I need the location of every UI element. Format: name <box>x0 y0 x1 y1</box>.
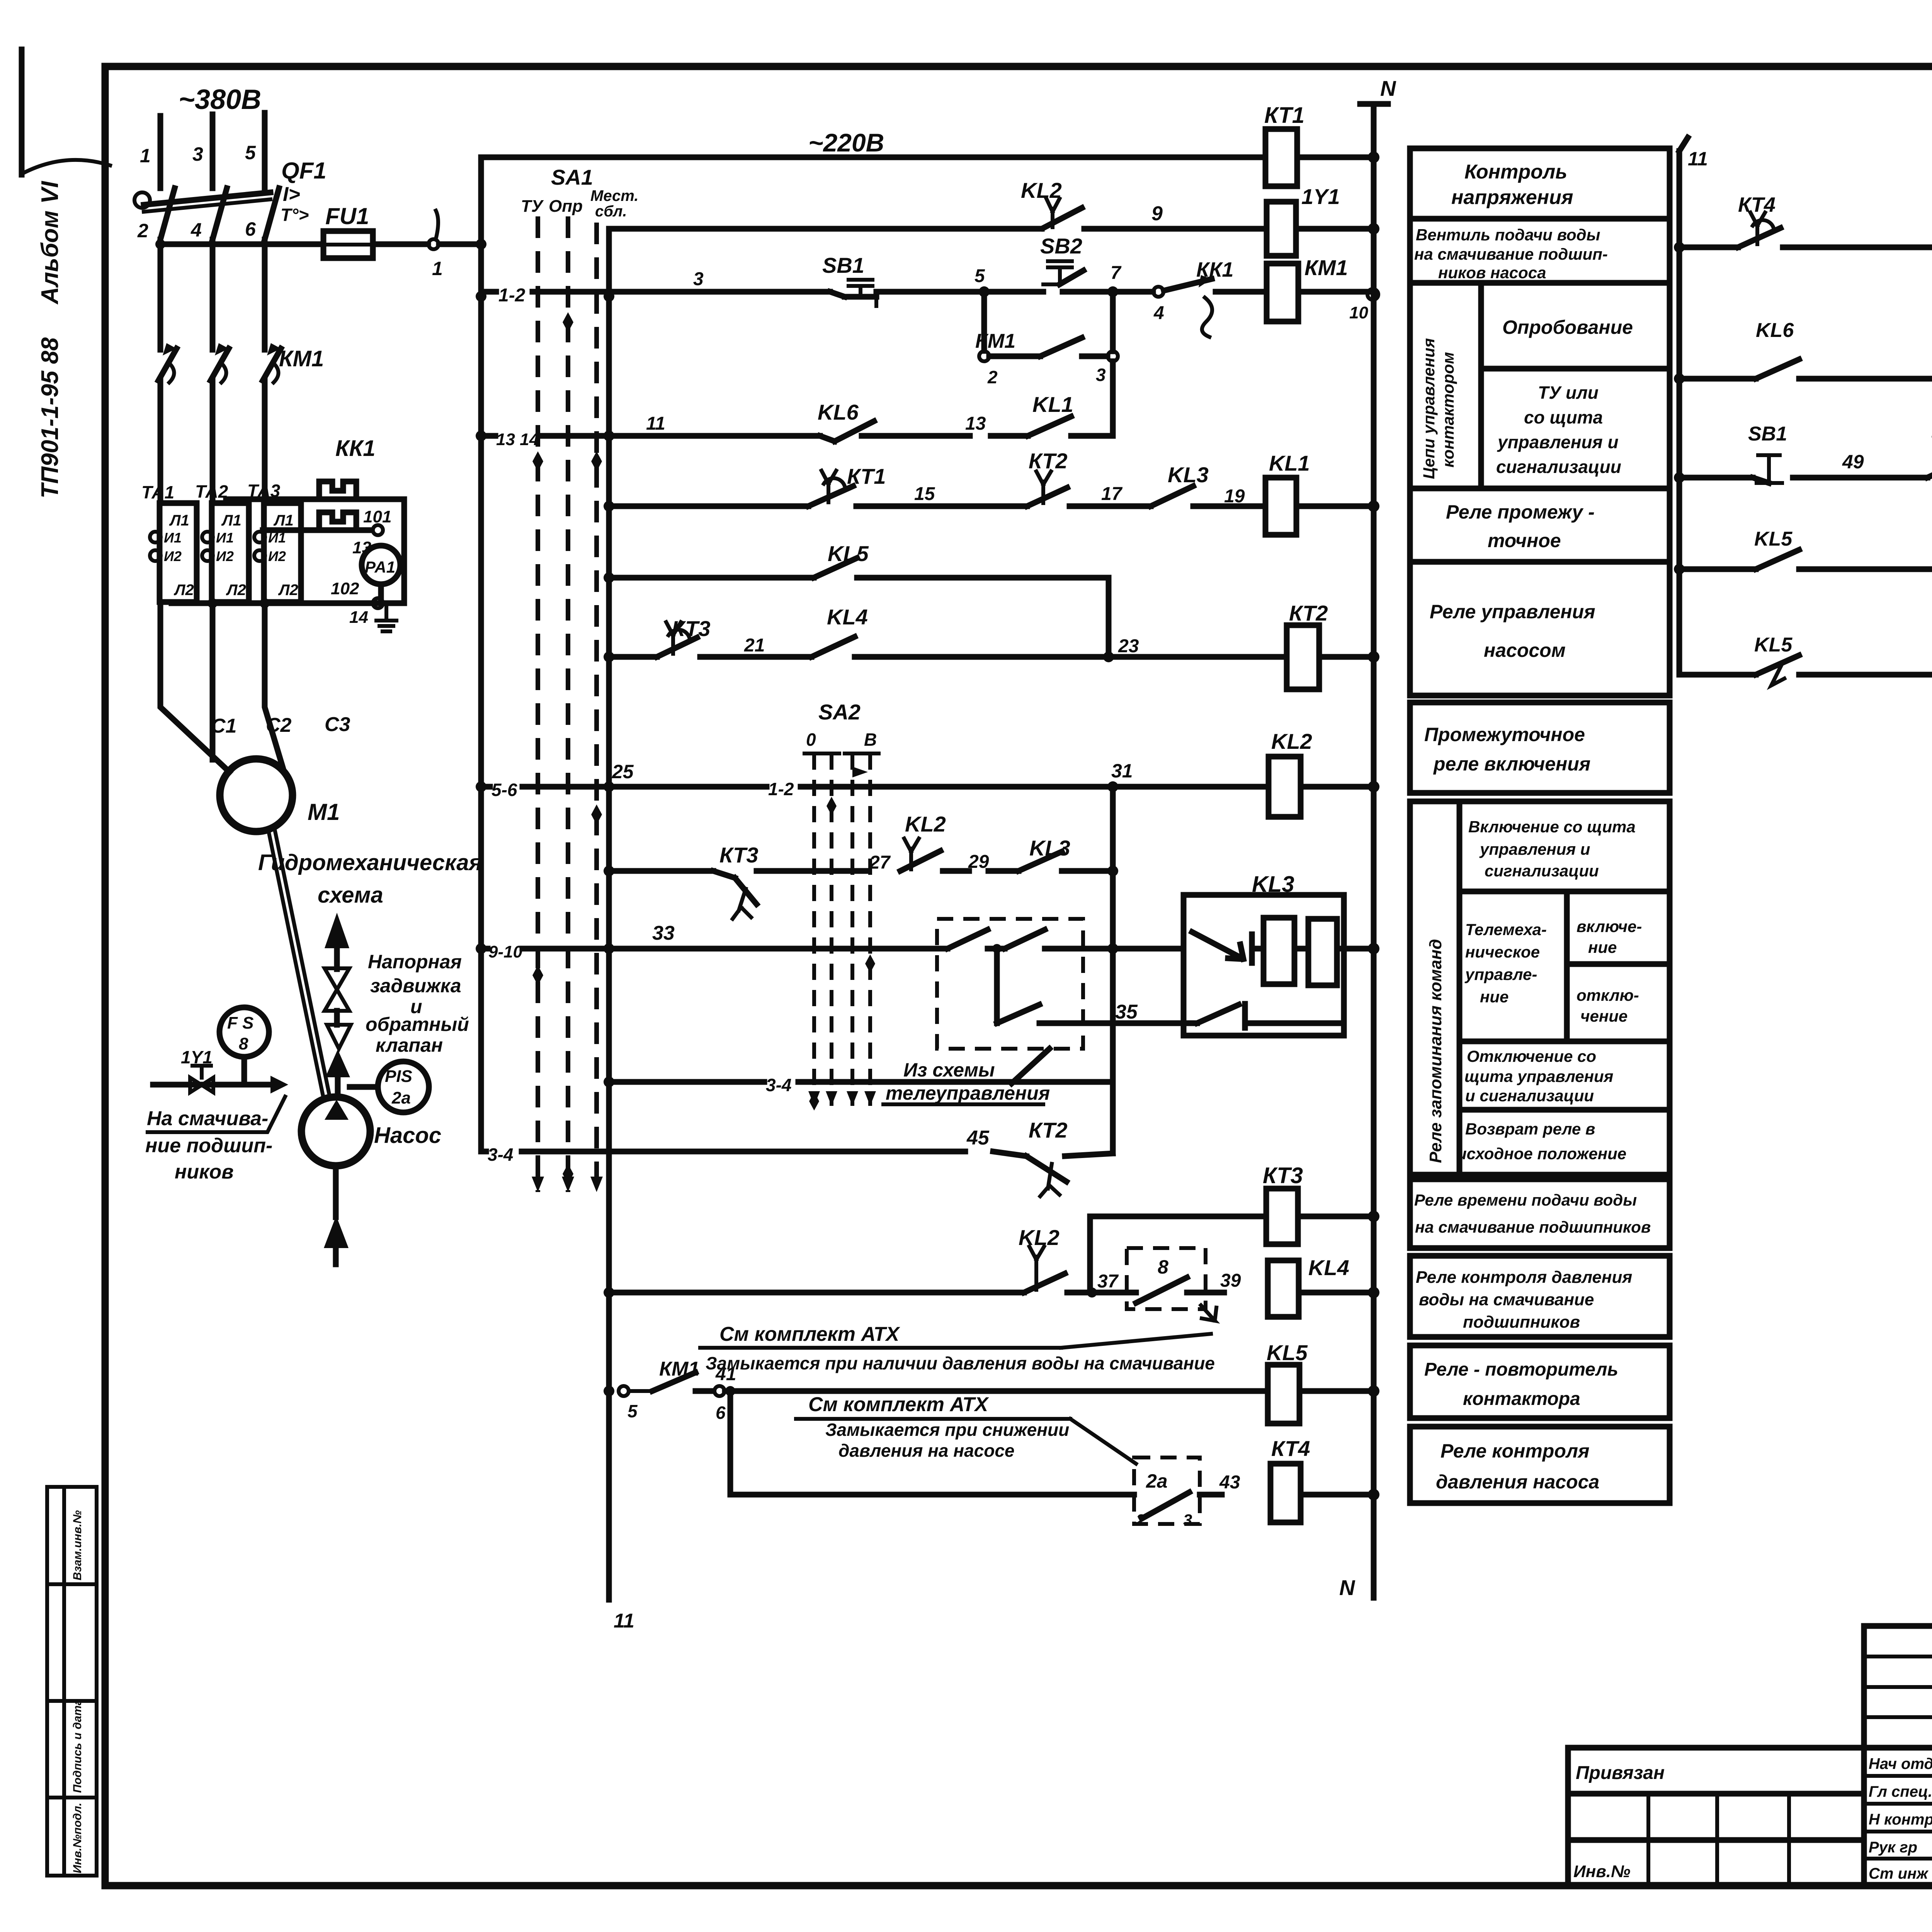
svg-text:КТ4: КТ4 <box>1738 193 1776 216</box>
row 27/29: KT3 KL2 KL3 <box>609 812 1118 919</box>
svg-text:I>: I> <box>283 183 300 206</box>
svg-text:отклю-: отклю- <box>1577 986 1639 1004</box>
pushbutton SB2 <box>1040 234 1107 292</box>
svg-text:М1: М1 <box>308 799 340 825</box>
svg-text:3-4: 3-4 <box>766 1075 791 1095</box>
svg-text:KL6: KL6 <box>818 400 859 424</box>
svg-text:Контроль: Контроль <box>1464 161 1567 183</box>
KM1 self-hold contact row 2-3 <box>975 292 1118 436</box>
disconnect point node 1 <box>429 211 486 279</box>
neutral bus N <box>1339 76 1396 1600</box>
phase wires to motor, C1 C2 C3 <box>160 602 350 772</box>
svg-text:ТА1: ТА1 <box>141 482 174 502</box>
svg-text:С3: С3 <box>325 713 350 736</box>
svg-text:задвижка: задвижка <box>370 975 461 997</box>
svg-text:Н контр: Н контр <box>1869 1811 1932 1828</box>
svg-text:КТ3: КТ3 <box>1263 1163 1303 1188</box>
svg-text:сбл.: сбл. <box>595 203 627 220</box>
svg-text:2: 2 <box>1136 1511 1145 1529</box>
relay coil KT4 <box>1270 1436 1379 1522</box>
second vertical bus (to 11) <box>604 230 634 1632</box>
svg-text:FU1: FU1 <box>325 203 369 229</box>
svg-text:управления и: управления и <box>1497 432 1619 452</box>
svg-text:0: 0 <box>806 730 816 750</box>
svg-text:25: 25 <box>612 761 634 782</box>
svg-text:КТ2: КТ2 <box>1029 1118 1067 1142</box>
svg-text:насосом: насосом <box>1484 639 1566 661</box>
svg-text:13 14: 13 14 <box>496 430 539 449</box>
svg-text:7: 7 <box>1111 263 1122 283</box>
svg-text:KL5: KL5 <box>1754 634 1793 656</box>
ATX note 1 <box>700 1323 1215 1373</box>
row 49: SB1 KL5 <box>1674 420 1932 483</box>
svg-text:2: 2 <box>987 367 998 387</box>
bottom-left stamp column boxes <box>47 1487 97 1876</box>
svg-text:И2: И2 <box>268 548 286 564</box>
svg-text:КТ4: КТ4 <box>1271 1436 1310 1461</box>
phase wires to current transformers <box>160 381 265 502</box>
svg-text:РА1: РА1 <box>365 558 395 576</box>
svg-text:SA2: SA2 <box>818 700 861 724</box>
svg-text:Л1: Л1 <box>273 512 294 529</box>
svg-text:10: 10 <box>1349 303 1368 322</box>
svg-text:KL2: KL2 <box>1019 1225 1060 1250</box>
svg-text:6: 6 <box>716 1403 726 1423</box>
phase wires below QF1 <box>160 240 265 350</box>
~220V label <box>808 128 884 157</box>
svg-text:со щита: со щита <box>1524 407 1603 427</box>
relay coil KL1 <box>1265 451 1379 535</box>
svg-text:2: 2 <box>137 220 148 241</box>
svg-text:КТ2: КТ2 <box>1289 601 1328 625</box>
svg-text:ТП901-1-95 88 Альбом VI: ТП901-1-95 88 Альбом VI <box>37 180 63 498</box>
svg-text:давления насоса: давления насоса <box>1436 1471 1599 1493</box>
svg-text:Инв.№подл.: Инв.№подл. <box>71 1803 84 1873</box>
svg-text:23: 23 <box>1118 636 1139 656</box>
svg-text:5-6: 5-6 <box>492 780 517 800</box>
svg-text:Цепи управления: Цепи управления <box>1420 338 1438 479</box>
svg-text:Л2: Л2 <box>173 582 194 599</box>
svg-text:на смачивание подшип-: на смачивание подшип- <box>1414 245 1608 263</box>
svg-text:9: 9 <box>1151 202 1163 225</box>
svg-text:См комплект АТХ: См комплект АТХ <box>719 1323 900 1345</box>
contact KL1 row D <box>991 392 1113 436</box>
svg-text:Л1: Л1 <box>221 512 241 529</box>
solenoid coil 1Y1 <box>1267 184 1379 256</box>
svg-text:31: 31 <box>1111 760 1133 782</box>
svg-text:17: 17 <box>1101 484 1123 504</box>
svg-text:И2: И2 <box>216 548 234 564</box>
svg-text:Включение со щита: Включение со щита <box>1468 818 1636 836</box>
svg-text:КМ1: КМ1 <box>279 346 324 371</box>
svg-text:управления и: управления и <box>1479 840 1590 858</box>
relay coil KT1 <box>1264 103 1379 186</box>
svg-text:И2: И2 <box>164 548 182 564</box>
svg-text:Гидромеханическая: Гидромеханическая <box>258 850 482 875</box>
row 3-4 / 45 KT2 contact <box>481 1118 1113 1196</box>
row KL6 contact <box>1674 247 1932 478</box>
svg-text:9-10: 9-10 <box>488 942 523 961</box>
title block: attachment table left <box>1568 1748 1864 1886</box>
svg-text:На смачива-: На смачива- <box>147 1107 268 1130</box>
function table column <box>1410 148 1670 219</box>
ATX note 2 <box>796 1393 1136 1464</box>
svg-text:Ст инж: Ст инж <box>1869 1865 1929 1882</box>
contact KL2 (NC) row B <box>1021 178 1082 228</box>
svg-text:KL2: KL2 <box>1271 729 1312 753</box>
svg-text:F S: F S <box>227 1014 253 1032</box>
svg-text:4: 4 <box>190 219 202 241</box>
relay coil KL2 <box>1269 729 1379 817</box>
svg-text:Реле времени подачи воды: Реле времени подачи воды <box>1414 1191 1637 1209</box>
svg-text:Нач отд: Нач отд <box>1869 1755 1932 1772</box>
svg-text:исходное положение: исходное положение <box>1457 1145 1626 1163</box>
svg-text:Промежуточное: Промежуточное <box>1424 724 1585 745</box>
contact KL6 row D <box>818 400 986 441</box>
svg-text:3: 3 <box>1096 365 1106 385</box>
row A wire ~220V to KT1 coil <box>481 155 1265 160</box>
svg-text:KL1: KL1 <box>1269 451 1310 475</box>
valve chain description text <box>366 951 469 1056</box>
SA2 row 3-4 <box>609 1075 1113 1095</box>
svg-text:3: 3 <box>1183 1511 1192 1529</box>
pressure switch PIS 2a <box>350 1061 429 1112</box>
row 51: KL5 HL1 lamp <box>1674 515 1932 587</box>
row 5-6 / 25 / 1-2 / 31 KL2 coil <box>481 760 1269 800</box>
thermal contact KK1 <box>1164 258 1267 337</box>
svg-text:Л2: Л2 <box>226 582 246 599</box>
svg-text:11: 11 <box>646 413 665 434</box>
svg-text:ТУ: ТУ <box>521 197 544 216</box>
svg-text:33: 33 <box>652 922 675 944</box>
row B wire 9 <box>609 202 1267 229</box>
svg-text:SB1: SB1 <box>1748 423 1787 445</box>
pipe destination text <box>145 1107 272 1183</box>
node 7 and disconnect 4 <box>1107 263 1164 323</box>
pushbutton SB1 <box>822 253 978 306</box>
left control bus L1 <box>476 157 486 1151</box>
svg-text:Реле промежу -: Реле промежу - <box>1446 501 1595 523</box>
latching relay KL3 box <box>1184 872 1379 1036</box>
svg-text:T°>: T°> <box>281 205 309 225</box>
svg-text:телеуправления: телеуправления <box>886 1082 1050 1104</box>
svg-text:1-2: 1-2 <box>768 779 794 799</box>
ammeter PA1 with node 101/102 and ground <box>172 507 404 631</box>
middle vertical 2880 upper <box>1107 787 1118 1153</box>
svg-text:2а: 2а <box>1146 1470 1168 1492</box>
row D wire 13-14 / 11 / 13 <box>481 413 820 449</box>
current transformer TA3 <box>247 481 301 602</box>
svg-text:~220В: ~220В <box>808 128 884 157</box>
discharge arrow up <box>325 913 349 969</box>
svg-text:Отключение со: Отключение со <box>1467 1047 1596 1065</box>
svg-text:KL5: KL5 <box>1267 1340 1308 1365</box>
row 9-10 / 33 telecontrol <box>481 922 937 961</box>
svg-text:KL4: KL4 <box>1308 1255 1349 1280</box>
~380V label <box>179 84 261 115</box>
hydromechanical scheme label <box>258 850 482 908</box>
svg-text:43: 43 <box>1219 1472 1240 1493</box>
svg-text:KL3: KL3 <box>1168 463 1209 487</box>
svg-text:4: 4 <box>1153 303 1164 323</box>
svg-text:щита управления: щита управления <box>1464 1067 1613 1085</box>
svg-text:21: 21 <box>744 635 765 656</box>
svg-text:37: 37 <box>1097 1271 1119 1292</box>
row E: KT1 15 KT2 17 KL3 19 KL1 coil <box>609 449 1265 507</box>
svg-text:KL6: KL6 <box>1756 319 1794 342</box>
svg-text:8: 8 <box>239 1034 248 1053</box>
check valve (обратный клапан) <box>325 1025 351 1097</box>
svg-text:KL4: KL4 <box>827 605 868 629</box>
svg-text:13: 13 <box>965 413 986 434</box>
svg-text:SB2: SB2 <box>1040 234 1082 258</box>
left margin vertical text ТП901-1-95.88 Альбом VI <box>37 180 63 498</box>
svg-text:6: 6 <box>245 218 256 240</box>
svg-text:ние подшип-: ние подшип- <box>145 1134 272 1157</box>
svg-text:11: 11 <box>1688 148 1708 170</box>
svg-text:QF1: QF1 <box>281 158 327 184</box>
svg-text:воды на смачивание: воды на смачивание <box>1419 1290 1594 1309</box>
svg-text:ников насоса: ников насоса <box>1438 264 1546 282</box>
svg-text:реле включения: реле включения <box>1433 753 1590 775</box>
svg-text:напряжения: напряжения <box>1451 186 1573 209</box>
row 47: KT4 contact, KL6 coil to N <box>1674 152 1932 276</box>
svg-text:Реле контроля давления: Реле контроля давления <box>1416 1268 1632 1287</box>
svg-text:3: 3 <box>693 269 704 289</box>
svg-text:ТУ или: ТУ или <box>1538 383 1599 403</box>
svg-text:14: 14 <box>349 608 368 627</box>
svg-text:5: 5 <box>628 1401 638 1421</box>
svg-text:Насос: Насос <box>374 1123 441 1148</box>
из схемы телеуправления text <box>883 1059 1050 1104</box>
svg-text:N: N <box>1339 1575 1355 1600</box>
svg-text:Мест.: Мест. <box>590 187 638 204</box>
svg-text:Л1: Л1 <box>169 512 189 529</box>
svg-text:И1: И1 <box>216 530 234 546</box>
svg-text:Привязан: Привязан <box>1576 1763 1665 1783</box>
gate valve (напорная задвижка) <box>325 968 349 1025</box>
svg-text:включе-: включе- <box>1577 917 1642 935</box>
fold mark top-left <box>22 49 110 175</box>
svg-text:и сигнализации: и сигнализации <box>1465 1087 1594 1105</box>
svg-text:Реле запоминания команд: Реле запоминания команд <box>1426 939 1445 1163</box>
svg-text:И1: И1 <box>164 530 182 546</box>
svg-text:KL1: KL1 <box>1032 392 1073 417</box>
svg-text:КМ1: КМ1 <box>975 330 1015 352</box>
svg-text:обратный: обратный <box>366 1014 469 1035</box>
svg-text:контактором: контактором <box>1439 352 1457 468</box>
svg-text:KL2: KL2 <box>905 812 946 836</box>
svg-text:8: 8 <box>1158 1256 1168 1278</box>
svg-text:15: 15 <box>914 484 935 504</box>
row G: KT3 21 KL4 23 KT2 coil <box>609 605 1287 662</box>
wire 2455 to KL3 box <box>1083 949 1197 1023</box>
svg-text:PIS: PIS <box>385 1067 412 1086</box>
svg-text:КТ3: КТ3 <box>719 843 758 867</box>
motor shaft double line <box>268 828 329 1096</box>
svg-text:102: 102 <box>331 579 359 598</box>
svg-text:Опробование: Опробование <box>1502 316 1633 338</box>
row 53: KL5 HL2 lamp <box>1679 569 1932 693</box>
svg-text:1: 1 <box>140 145 151 167</box>
svg-text:точное: точное <box>1488 530 1561 551</box>
svg-text:подшипников: подшипников <box>1463 1313 1580 1332</box>
bearing water pipe with solenoid valve 1Y1 <box>148 1047 288 1132</box>
flow switch FS 8 <box>219 1007 269 1085</box>
svg-text:~380В: ~380В <box>179 84 261 115</box>
svg-text:49: 49 <box>1842 451 1864 473</box>
svg-text:давления на насосе: давления на насосе <box>838 1440 1015 1461</box>
svg-text:КК1: КК1 <box>335 436 376 461</box>
relay coil KT2 <box>1287 601 1379 689</box>
svg-text:Напорная: Напорная <box>368 951 462 973</box>
svg-text:3: 3 <box>192 143 203 165</box>
phase line stubs with terminals 1 3 5 <box>140 113 265 188</box>
fuse FU1 <box>323 203 428 258</box>
svg-text:Телемеха-: Телемеха- <box>1465 920 1547 939</box>
svg-text:клапан: клапан <box>376 1034 443 1056</box>
svg-text:Реле управления: Реле управления <box>1430 601 1595 622</box>
svg-text:Опр: Опр <box>549 197 583 216</box>
motor M1 <box>220 759 340 832</box>
svg-text:Замыкается при наличии давлени: Замыкается при наличии давления воды на … <box>706 1353 1215 1373</box>
node 5 junction <box>975 266 1043 297</box>
control feed wire to fuse <box>155 239 323 249</box>
current transformer TA1 <box>141 482 197 602</box>
svg-text:35: 35 <box>1115 1001 1138 1023</box>
thermal relay KK1 heaters <box>226 436 404 603</box>
svg-text:КТ1: КТ1 <box>1264 103 1304 128</box>
svg-text:101: 101 <box>363 507 391 526</box>
svg-text:1Y1: 1Y1 <box>1301 184 1340 209</box>
svg-text:19: 19 <box>1224 486 1245 507</box>
svg-text:См комплект АТХ: См комплект АТХ <box>808 1393 989 1416</box>
svg-text:SA1: SA1 <box>551 165 593 189</box>
right circuit bus 11 <box>1679 138 1708 675</box>
circuit breaker QF1 <box>134 158 327 241</box>
key SA2 dashed lines <box>804 700 879 1111</box>
svg-text:контактора: контактора <box>1463 1389 1580 1409</box>
svg-text:27: 27 <box>869 852 891 873</box>
relay coil KL4 <box>1268 1255 1379 1317</box>
svg-text:схема: схема <box>318 883 383 908</box>
svg-text:Реле - повторитель: Реле - повторитель <box>1424 1359 1618 1380</box>
svg-text:KL5: KL5 <box>1754 528 1793 550</box>
svg-text:Подпись и дата: Подпись и дата <box>71 1699 84 1793</box>
svg-text:КТ2: КТ2 <box>1029 449 1067 473</box>
svg-text:ние: ние <box>1588 938 1617 956</box>
svg-text:KL2: KL2 <box>1021 178 1062 202</box>
svg-text:11: 11 <box>614 1610 634 1632</box>
svg-text:на смачивание подшипников: на смачивание подшипников <box>1415 1218 1651 1236</box>
svg-text:39: 39 <box>1220 1270 1241 1291</box>
svg-text:N: N <box>1380 76 1396 100</box>
svg-text:3-4: 3-4 <box>488 1145 513 1165</box>
svg-text:SB1: SB1 <box>822 253 864 277</box>
svg-text:Взам.инв.№: Взам.инв.№ <box>71 1510 84 1580</box>
svg-text:Инв.№: Инв.№ <box>1573 1862 1630 1881</box>
svg-text:Вентиль подачи воды: Вентиль подачи воды <box>1416 226 1600 244</box>
svg-text:В: В <box>864 730 877 750</box>
svg-text:Гл спец.: Гл спец. <box>1869 1783 1932 1800</box>
contactor KM1 main contacts <box>158 343 324 383</box>
row 41: KM1 aux contact, KL5 coil <box>619 1358 1268 1423</box>
svg-text:Из схемы: Из схемы <box>903 1059 995 1081</box>
contactor coil KM1 <box>1267 255 1378 322</box>
svg-text:1-2: 1-2 <box>498 285 526 306</box>
relay coil KT3 and its row <box>1090 1163 1379 1293</box>
svg-text:Л2: Л2 <box>278 582 298 599</box>
svg-text:2а: 2а <box>391 1088 411 1107</box>
svg-text:5: 5 <box>245 142 256 163</box>
svg-text:Рук гр: Рук гр <box>1869 1839 1917 1856</box>
svg-text:сигнализации: сигнализации <box>1496 457 1621 477</box>
svg-text:КМ1: КМ1 <box>1304 255 1348 280</box>
svg-text:1: 1 <box>432 258 443 279</box>
title block: staff table <box>1864 1626 1932 1886</box>
svg-text:Возврат реле в: Возврат реле в <box>1465 1120 1595 1138</box>
svg-text:5: 5 <box>975 266 985 286</box>
relay coil KL5 <box>1267 1340 1379 1423</box>
svg-text:Замыкается при снижении: Замыкается при снижении <box>825 1420 1069 1440</box>
svg-text:Реле контроля: Реле контроля <box>1440 1440 1589 1462</box>
row C wire 1-2 / 3 <box>481 269 830 306</box>
svg-text:сигнализации: сигнализации <box>1485 862 1599 880</box>
row F: KL5 contact long wire <box>609 541 1109 657</box>
pump (Насос) <box>301 1097 441 1264</box>
row 43: pressure contact 2a box, KT4 coil <box>730 1391 1240 1529</box>
svg-text:41: 41 <box>715 1364 736 1384</box>
svg-text:управле-: управле- <box>1464 965 1537 983</box>
telecontrol dashed box contacts <box>937 919 1138 1083</box>
svg-text:45: 45 <box>966 1127 990 1149</box>
svg-text:чение: чение <box>1580 1007 1628 1025</box>
row 37/39: KL2 contact, AТХ box 8, KL4 coil <box>609 1225 1241 1321</box>
current transformer TA2 <box>195 481 249 602</box>
svg-text:ние: ние <box>1480 988 1509 1006</box>
svg-text:ническое: ническое <box>1465 943 1540 961</box>
selector SA1 dashed lines <box>521 165 638 1192</box>
svg-text:ников: ников <box>175 1161 234 1183</box>
